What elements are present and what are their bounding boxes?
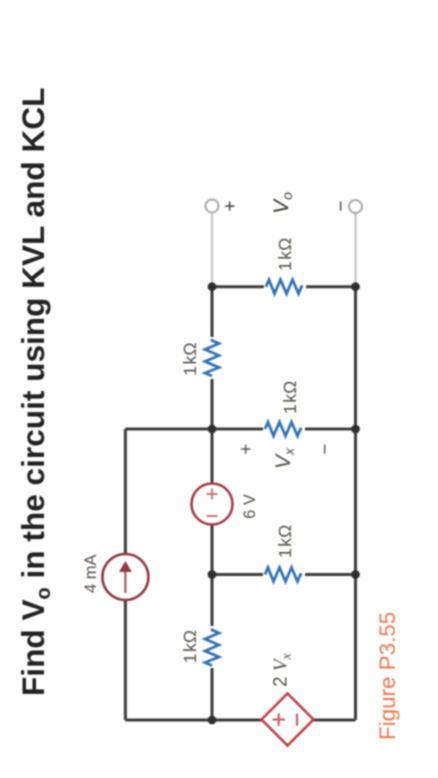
node dot G [351, 282, 360, 291]
resistor R3 1kOhm (vertical, second branch) [263, 566, 305, 584]
current source I1 4mA [102, 554, 148, 600]
wire bottom rail [354, 287, 357, 720]
svg-text:Vx: Vx [272, 447, 297, 469]
svg-text:1 kΩ: 1 kΩ [180, 342, 200, 375]
svg-text:1 kΩ: 1 kΩ [280, 381, 300, 414]
resistor R1 1kOhm (left, on middle branch) [203, 626, 221, 668]
wire middle vertical [125, 428, 355, 431]
resistor R4 1kOhm Vx (vertical, middle branch) [263, 420, 305, 438]
wire top rail [124, 429, 127, 720]
svg-text:+: + [220, 200, 241, 211]
node dot D [208, 282, 217, 291]
svg-text:−: − [331, 200, 352, 211]
title text [15, 88, 55, 696]
node dot B [208, 570, 217, 579]
svg-text:6 V: 6 V [241, 494, 259, 519]
svg-text:1 kΩ: 1 kΩ [275, 238, 295, 271]
node dot E [351, 570, 360, 579]
svg-text:Figure P3.55: Figure P3.55 [375, 612, 400, 740]
node dot A [208, 716, 217, 725]
voltage source V1 6V [192, 484, 233, 525]
node dot C [208, 425, 217, 434]
svg-text:1 kΩ: 1 kΩ [180, 630, 200, 663]
svg-text:−: − [315, 443, 336, 454]
svg-text:+: + [236, 443, 257, 454]
svg-text:1 kΩ: 1 kΩ [275, 525, 295, 558]
svg-text:Find Vo in the circuit using K: Find Vo in the circuit using KVL and KCL [15, 88, 55, 696]
resistor R2 1kOhm (right, on middle branch) [203, 337, 221, 379]
wire second vertical [212, 573, 356, 576]
dependent source 2Vx (diamond) [262, 694, 314, 746]
node dot F [351, 425, 360, 434]
wire gray lead top [211, 213, 213, 287]
resistor R5 1kOhm (output branch) [264, 278, 306, 296]
wire right rail [212, 285, 356, 288]
svg-text:Vo: Vo [270, 192, 295, 214]
svg-text:4 mA: 4 mA [82, 554, 100, 593]
terminal top [206, 200, 219, 213]
wire middle horizontal [211, 287, 214, 720]
svg-text:2 Vx: 2 Vx [271, 653, 295, 687]
wire gray lead bottom [354, 214, 356, 287]
wire left rail [125, 719, 355, 722]
terminal bottom [349, 200, 362, 213]
